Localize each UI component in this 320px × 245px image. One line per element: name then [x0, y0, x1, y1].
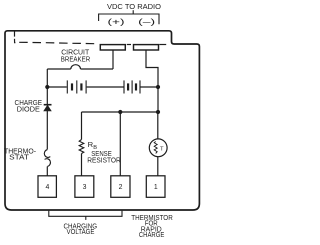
circuit breaker CB1 (bump in wire): [47, 65, 113, 69]
svg-text:VOLTAGE: VOLTAGE: [67, 227, 95, 236]
svg-text:(–): (–): [138, 17, 156, 26]
svg-text:1: 1: [154, 184, 158, 191]
wire tap down to terminal 2: [119, 112, 121, 176]
svg-text:T: T: [160, 146, 164, 152]
label CIRCUIT BREAKER: [61, 48, 91, 64]
svg-text:4: 4: [45, 184, 49, 191]
label SENSE RESISTOR: [87, 149, 121, 164]
connector pin (+): [100, 45, 125, 50]
svg-text:CHARGE: CHARGE: [139, 230, 165, 239]
dash right of minus pin: [159, 44, 166, 46]
wire mid rail left corner down: [81, 112, 83, 140]
svg-text:VDC TO RADIO: VDC TO RADIO: [107, 2, 161, 11]
svg-text:3: 3: [83, 184, 87, 191]
node mid rail right: [156, 110, 160, 114]
connector pin (-): [134, 45, 159, 50]
node battery plus junction: [45, 85, 49, 89]
label CHARGING VOLTAGE: [64, 221, 98, 236]
wire RB to terminal 3: [81, 154, 83, 176]
wire from breaker down to battery + node: [46, 69, 48, 87]
thermostat S1 (squiggle symbol): [44, 150, 50, 167]
svg-text:2: 2: [119, 184, 123, 191]
bracket charging voltage group: [49, 211, 122, 220]
wire from (-) pin down to minus node: [146, 50, 158, 87]
terminal 4 box: [38, 176, 56, 198]
resistor RB sense resistor (zigzag): [79, 140, 84, 154]
svg-text:(+): (+): [108, 17, 126, 26]
svg-text:DIODE: DIODE: [17, 104, 40, 113]
case outline (charger housing): [5, 31, 199, 210]
label CHARGE DIODE: [15, 98, 43, 113]
svg-text:RESISTOR: RESISTOR: [87, 155, 121, 164]
dash between connector pins: [127, 44, 131, 46]
label THERMO-STAT: [4, 146, 36, 161]
battery B1 (cell group 1): [67, 80, 86, 93]
mid rail wire: [82, 111, 159, 113]
node battery minus junction: [156, 85, 160, 89]
wire between battery groups: [87, 86, 124, 88]
wire thermostat to terminal 4: [46, 167, 48, 176]
terminal 2 box: [111, 176, 130, 198]
wire battery to minus node: [140, 86, 158, 88]
node mid rail tap: [118, 110, 122, 114]
svg-text:BREAKER: BREAKER: [61, 55, 91, 64]
terminal 3 box: [75, 176, 94, 198]
diode D1 charge diode: [44, 87, 52, 150]
wire to battery group 1: [47, 86, 67, 88]
wire minus node down to mid rail: [157, 87, 159, 112]
wire from (+) pin down: [112, 50, 114, 69]
thermistor RT1 (circle with zigzag and T): [149, 112, 167, 176]
terminal 1 box: [146, 176, 165, 198]
label RB: [88, 140, 98, 151]
bracket for VDC TO RADIO connector: [99, 10, 159, 24]
battery B2 (cell group 2): [124, 80, 140, 93]
dashed internal boundary (battery pack partition): [15, 31, 95, 43]
svg-text:STAT: STAT: [9, 152, 29, 161]
label THERMISTOR FOR RAPID CHARGE: [131, 213, 173, 239]
